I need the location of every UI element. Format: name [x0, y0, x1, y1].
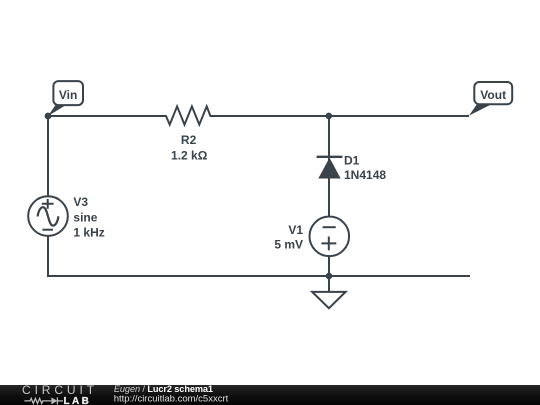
svg-text:V1: V1 [288, 223, 303, 237]
svg-text:Vin: Vin [59, 88, 77, 102]
svg-text:Vout: Vout [480, 88, 506, 102]
svg-text:LAB: LAB [64, 396, 92, 405]
svg-text:1N4148: 1N4148 [344, 168, 386, 182]
svg-text:R2: R2 [181, 133, 197, 147]
svg-text:http://circuitlab.com/c5xxcrt: http://circuitlab.com/c5xxcrt [114, 393, 229, 404]
svg-text:V3: V3 [73, 195, 88, 209]
svg-text:1 kHz: 1 kHz [73, 225, 104, 239]
svg-text:5 mV: 5 mV [274, 238, 303, 252]
svg-text:sine: sine [73, 210, 97, 224]
svg-text:Eugen / Lucr2 schema1: Eugen / Lucr2 schema1 [114, 384, 213, 394]
svg-text:D1: D1 [344, 153, 360, 167]
svg-text:1.2 kΩ: 1.2 kΩ [171, 148, 208, 162]
svg-text:CIRCUIT: CIRCUIT [22, 383, 98, 397]
